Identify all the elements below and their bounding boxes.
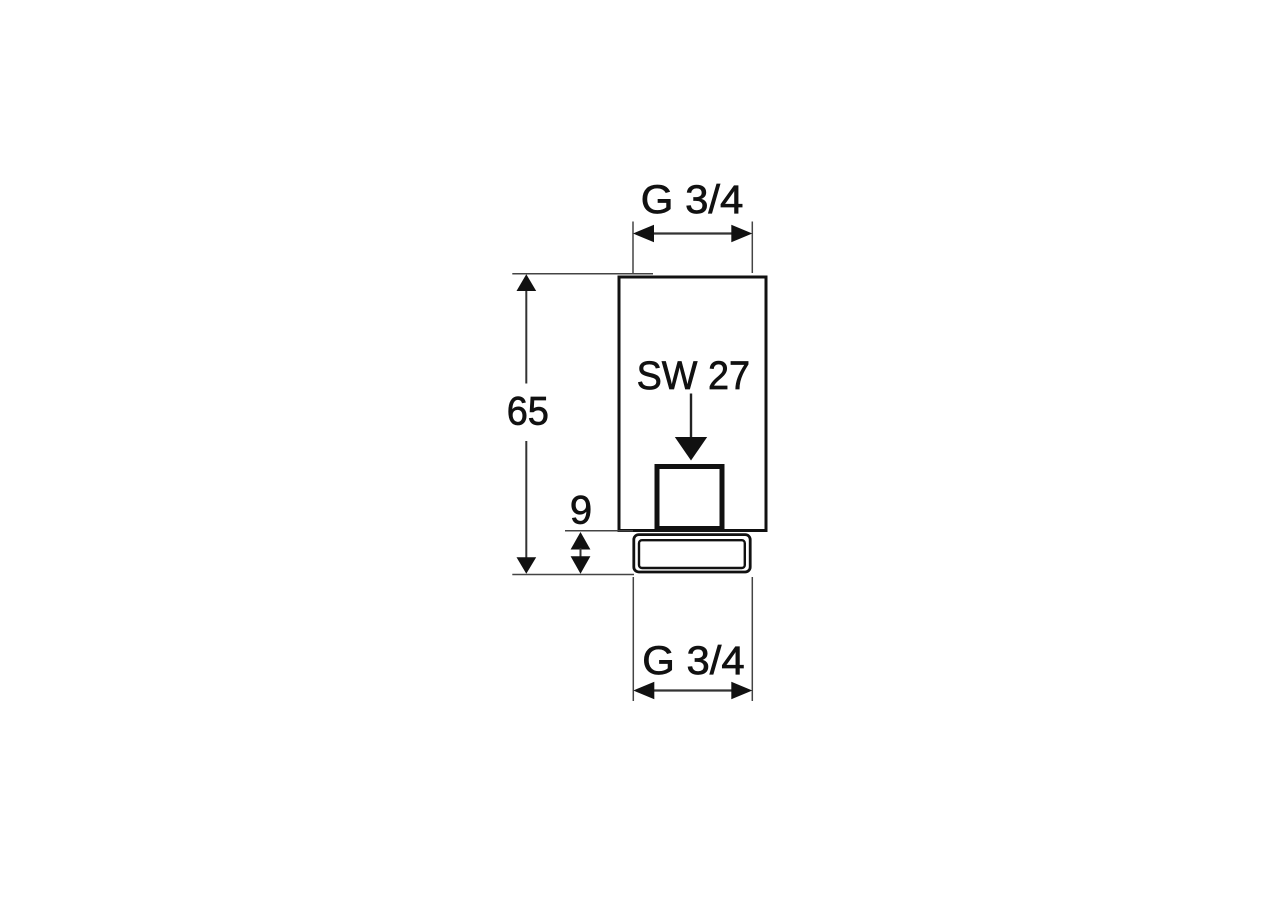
9 dimension: top extension line	[565, 530, 633, 532]
thread section inner outline	[639, 540, 745, 568]
svg-text:9: 9	[570, 488, 592, 532]
65 dimension line with arrows	[517, 274, 537, 574]
fitting body outline	[619, 277, 766, 531]
svg-text:SW 27: SW 27	[637, 354, 750, 398]
9 dimension arrows	[571, 532, 591, 574]
svg-text:G 3/4: G 3/4	[642, 639, 744, 683]
65 dimension: top extension line	[512, 273, 653, 275]
thread section outer outline	[634, 535, 750, 572]
svg-text:G 3/4: G 3/4	[641, 178, 744, 222]
SW 27 leader arrow	[675, 394, 707, 461]
bottom G 3/4 dimension: extension lines	[632, 577, 634, 701]
svg-text:65: 65	[507, 389, 549, 433]
top G 3/4 dimension line with arrows	[633, 225, 752, 243]
hex flat (SW 27) square	[657, 467, 722, 529]
bottom G 3/4 dimension line with arrows	[633, 682, 752, 700]
top G 3/4 dimension: extension lines	[632, 222, 634, 274]
65 dimension: bottom extension line	[512, 574, 634, 576]
